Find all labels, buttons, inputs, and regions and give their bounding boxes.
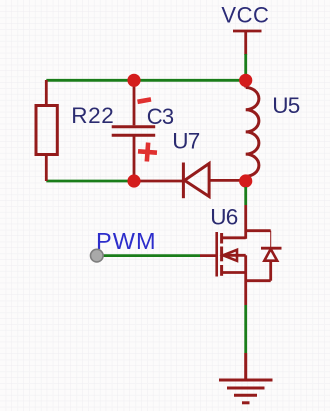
gate pin [200, 254, 217, 257]
channel segment top [220, 233, 223, 244]
wire PWM [97, 254, 200, 257]
capacitor C3 plus mark [137, 142, 157, 162]
wire VCC to top rail [244, 54, 247, 80]
gate bar [215, 232, 218, 277]
wire bottom rail (left green part) [46, 180, 134, 183]
svg-text:PWM: PWM [96, 228, 157, 254]
junction top-right [239, 74, 252, 87]
inductor U5 [246, 80, 259, 181]
source pin wire [244, 273, 247, 306]
junction bottom-right [239, 174, 252, 187]
channel segment bottom [220, 265, 223, 276]
ground [219, 353, 273, 403]
wire source to ground [244, 305, 247, 353]
channel segment middle [220, 247, 223, 262]
source stub [222, 271, 246, 274]
body diode cathode bar [261, 247, 282, 250]
drain pin wire [244, 205, 247, 239]
transistor U6 (NMOS with body diode) [200, 205, 282, 305]
power VCC symbol [233, 31, 262, 55]
svg-text:VCC: VCC [221, 3, 269, 28]
body diode anode lead [269, 261, 272, 281]
wire top rail [46, 79, 245, 82]
body arrow [223, 250, 237, 261]
body diode branch top [246, 229, 271, 232]
body diode triangle [264, 249, 277, 261]
body tail [223, 254, 246, 257]
drain stub [222, 236, 246, 239]
body diode bottom branch [246, 279, 271, 282]
diode U7 [134, 163, 246, 199]
capacitor C3 [112, 80, 156, 181]
wire coil to mosfet drain [244, 187, 247, 205]
body diode cathode lead [270, 231, 272, 247]
svg-text:C3: C3 [147, 104, 174, 129]
svg-text:U6: U6 [210, 204, 237, 229]
body-source vertical [244, 255, 247, 272]
resistor R22 [36, 80, 57, 181]
pin PWM port dot [91, 249, 104, 262]
junction bottom-left [127, 174, 140, 187]
svg-text:U5: U5 [272, 93, 299, 118]
svg-text:R22: R22 [71, 103, 114, 128]
capacitor C3 minus mark [138, 99, 152, 101]
svg-text:U7: U7 [172, 128, 199, 153]
junction top-left [127, 74, 140, 87]
